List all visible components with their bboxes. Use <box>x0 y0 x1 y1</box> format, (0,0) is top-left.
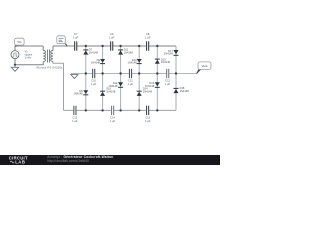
svg-text:1 µF: 1 µF <box>110 119 116 123</box>
svg-text:Murata PS-04205s: Murata PS-04205s <box>37 66 64 70</box>
svg-text:1N4148: 1N4148 <box>164 52 174 56</box>
svg-text:1N4148: 1N4148 <box>89 50 99 54</box>
wire ladder column 1 <box>85 46 87 110</box>
diode D12 <box>108 81 123 88</box>
svg-text:C8: C8 <box>146 32 150 36</box>
node Vin flag <box>15 38 25 46</box>
svg-text:1 µF: 1 µF <box>109 36 115 40</box>
svg-text:1 kHz: 1 kHz <box>25 56 32 59</box>
svg-text:Vout: Vout <box>202 64 208 68</box>
wire ladder column 2 <box>102 46 104 110</box>
capacitor C11 <box>128 69 134 86</box>
capacitor C13 <box>72 106 78 123</box>
svg-text:1 µF: 1 µF <box>145 119 151 123</box>
diode D11 <box>118 48 133 55</box>
svg-text:C15: C15 <box>145 115 150 119</box>
diode D16 <box>145 81 160 88</box>
wire top rail <box>15 45 176 47</box>
diode D13 <box>128 58 142 65</box>
svg-text:1N4148: 1N4148 <box>108 84 118 88</box>
svg-text:C10: C10 <box>91 79 96 83</box>
wire secondary bottom to bottom rail <box>53 62 64 111</box>
CircuitLab logo <box>9 156 28 165</box>
svg-text:C12: C12 <box>165 79 170 83</box>
svg-text:1N4148: 1N4148 <box>106 89 116 93</box>
diode D7 <box>83 48 98 55</box>
svg-text:C11: C11 <box>128 79 133 83</box>
svg-text:http://circuitlab.com/c/3nb845: http://circuitlab.com/c/3nb845 <box>47 159 89 163</box>
wire middle rail <box>71 73 196 75</box>
capacitor C7 <box>73 32 79 50</box>
capacitor C10 <box>91 69 97 86</box>
diode D17 <box>164 49 179 56</box>
voltage source V1 <box>11 50 33 59</box>
wire ladder column 5 <box>156 46 158 110</box>
diode D15 <box>155 57 171 64</box>
svg-text:1N4148: 1N4148 <box>91 61 101 65</box>
svg-text:LAB: LAB <box>15 160 25 165</box>
svg-text:1 µF: 1 µF <box>165 82 171 86</box>
footer bar <box>0 155 220 165</box>
svg-text:Vin: Vin <box>17 40 22 44</box>
wire source loop <box>15 46 43 65</box>
svg-text:1 µF: 1 µF <box>73 36 79 40</box>
ground (middle rail) <box>71 75 78 79</box>
svg-text:1N4148: 1N4148 <box>180 89 190 93</box>
capacitor C8 <box>145 32 151 50</box>
node junction dots <box>14 45 177 112</box>
capacitor C14 <box>110 106 116 123</box>
capacitor C12 <box>165 69 171 86</box>
svg-text:C9: C9 <box>110 32 114 36</box>
diode D10 <box>100 87 116 96</box>
diode D8 <box>74 89 89 96</box>
diode D9 <box>91 58 105 65</box>
svg-text:1N4148: 1N4148 <box>124 50 134 54</box>
capacitor C9 <box>109 32 115 50</box>
wire ladder column 3 <box>120 46 122 110</box>
diode D18 <box>174 86 190 93</box>
svg-text:C14: C14 <box>110 115 115 119</box>
svg-text:C13: C13 <box>72 115 77 119</box>
svg-text:1 µF: 1 µF <box>91 82 97 86</box>
svg-text:C7: C7 <box>74 32 78 36</box>
node Vout flag <box>196 62 211 74</box>
svg-text:1N4148: 1N4148 <box>128 61 138 65</box>
wire bottom rail <box>64 109 177 111</box>
diode D14 <box>137 87 153 96</box>
svg-text:1N4148: 1N4148 <box>145 84 155 88</box>
svg-text:1 µF: 1 µF <box>72 119 78 123</box>
svg-text:1N4148: 1N4148 <box>161 60 171 64</box>
wire ladder column 6 (right edge) <box>175 46 177 110</box>
wire secondary top <box>52 46 54 51</box>
svg-text:1N4148: 1N4148 <box>74 92 84 96</box>
svg-text:1 µF: 1 µF <box>128 82 134 86</box>
svg-text:1N4148: 1N4148 <box>143 89 153 93</box>
node probe flag (transformer output) <box>57 36 68 47</box>
capacitor C15 <box>145 106 151 123</box>
svg-text:1 µF: 1 µF <box>145 36 151 40</box>
ground (source) <box>11 65 18 72</box>
transformer T1 (Murata) <box>43 50 53 63</box>
wire ladder column 4 <box>138 46 140 110</box>
